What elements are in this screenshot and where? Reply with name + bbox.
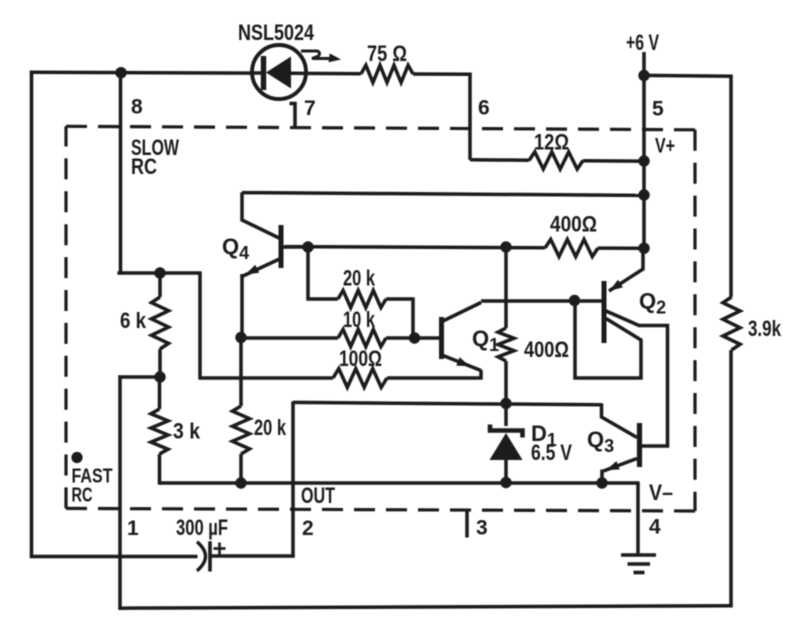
svg-text:OUT: OUT (301, 483, 335, 508)
svg-text:5: 5 (652, 98, 664, 121)
svg-text:NSL5024: NSL5024 (238, 20, 315, 45)
svg-text:7: 7 (304, 97, 316, 120)
svg-text:RC: RC (72, 485, 93, 507)
svg-text:10 k: 10 k (343, 307, 376, 332)
svg-text:3: 3 (476, 517, 488, 540)
svg-text:12Ω: 12Ω (534, 130, 569, 155)
svg-text:1: 1 (127, 517, 139, 540)
svg-text:400Ω: 400Ω (550, 212, 597, 237)
svg-text:20 k: 20 k (343, 266, 376, 291)
svg-text:6 k: 6 k (120, 308, 147, 333)
svg-text:20 k: 20 k (254, 415, 287, 440)
svg-text:V–: V– (649, 480, 673, 505)
svg-text:6.5 V: 6.5 V (531, 440, 572, 465)
svg-text:100Ω: 100Ω (339, 346, 382, 371)
svg-text:3 k: 3 k (173, 419, 201, 444)
svg-text:3.9k: 3.9k (748, 316, 782, 341)
svg-text:75 Ω: 75 Ω (367, 41, 407, 66)
svg-text:4: 4 (649, 516, 661, 539)
svg-text:RC: RC (131, 154, 157, 179)
svg-text:V+: V+ (655, 135, 675, 158)
svg-text:300 µF: 300 µF (176, 515, 228, 540)
svg-text:8: 8 (131, 96, 143, 119)
svg-text:400Ω: 400Ω (524, 337, 569, 362)
svg-text:2: 2 (302, 517, 314, 540)
svg-text:6: 6 (478, 97, 490, 120)
svg-text:+6 V: +6 V (626, 30, 659, 55)
